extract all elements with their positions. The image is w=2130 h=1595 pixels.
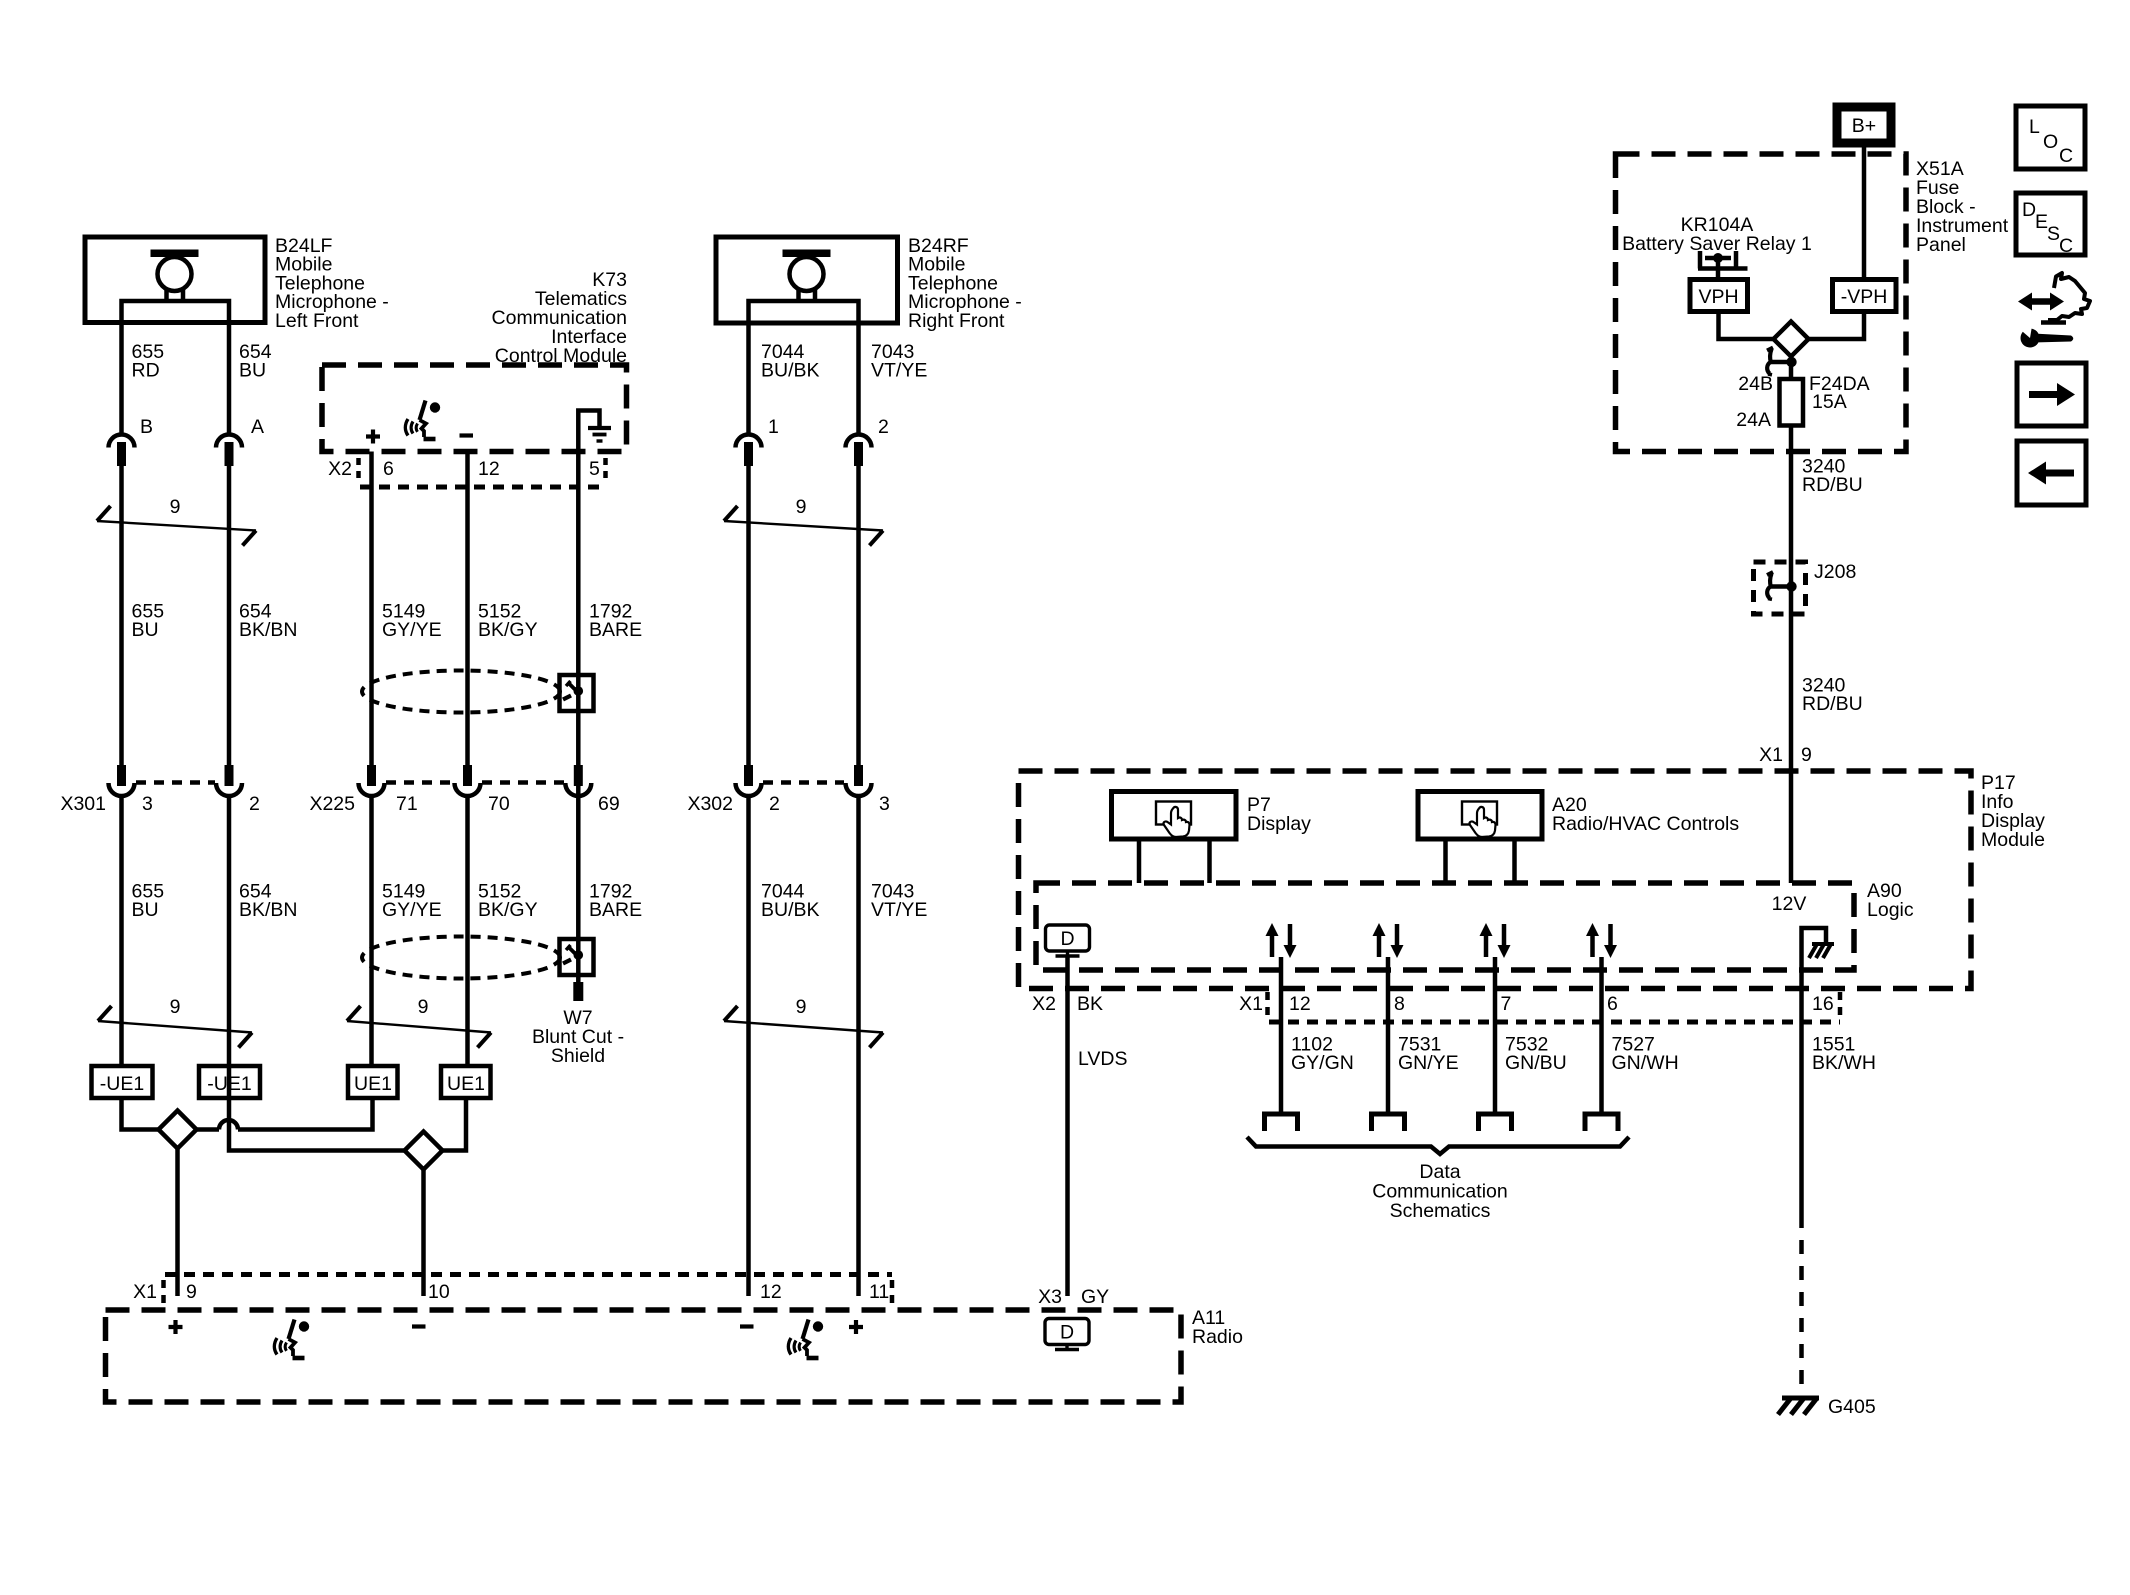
fuse block X51A dashed box xyxy=(1616,154,1907,452)
logic A90 dashed box xyxy=(1036,883,1854,970)
goto terminal (7532) xyxy=(1479,1114,1512,1131)
svg-text:Shield: Shield xyxy=(551,1045,605,1067)
svg-text:10: 10 xyxy=(428,1281,450,1303)
speaker icon radio left xyxy=(274,1320,309,1359)
microphone B24RF xyxy=(716,237,898,323)
terminal -VPH xyxy=(1833,280,1897,312)
brace Data Communication Schematics xyxy=(1247,1137,1629,1154)
updown arrows pin 7 xyxy=(1480,923,1511,958)
dashed ground wire to G405 xyxy=(1799,1214,1804,1394)
svg-text:9: 9 xyxy=(796,996,807,1018)
svg-text:Schematics: Schematics xyxy=(1390,1200,1491,1222)
wire 1551 BK/WH xyxy=(1799,954,1804,1214)
wire 1102 GY/GN xyxy=(1279,957,1284,1114)
wire 655 RD xyxy=(119,323,124,435)
updown arrows pin 12 xyxy=(1266,923,1297,958)
wire 7044 lower xyxy=(746,796,751,1296)
goto terminal (1102) xyxy=(1265,1114,1298,1131)
svg-text:X301: X301 xyxy=(60,793,106,815)
wire 7044 middle xyxy=(746,466,751,783)
svg-text:15A: 15A xyxy=(1812,391,1847,413)
svg-text:9: 9 xyxy=(170,996,181,1018)
minus mark (pin 12) xyxy=(740,1324,754,1328)
svg-text:5: 5 xyxy=(589,458,600,480)
takeout arrow at fuse feed xyxy=(1767,348,1797,375)
svg-text:UE1: UE1 xyxy=(447,1073,485,1095)
takeout -UE1 (655) xyxy=(92,1066,153,1098)
goto terminal (7531) xyxy=(1372,1114,1405,1131)
wire LVDS xyxy=(1065,956,1070,1296)
wire 7044 BU/BK xyxy=(746,323,751,435)
minus terminal mark xyxy=(460,433,474,437)
blunt cut W7 xyxy=(573,982,583,1001)
goto terminal (7527) xyxy=(1585,1114,1618,1131)
nav icon LOC xyxy=(2016,106,2085,169)
twist mark 9 (7044/7043 upper) xyxy=(724,496,883,546)
wire 654 BK/BN lower xyxy=(227,796,232,1098)
splice diamond 1 xyxy=(159,1111,197,1149)
wire 5152 BK/GY lower xyxy=(465,796,470,1066)
svg-text:X2: X2 xyxy=(328,458,352,480)
display P7 xyxy=(1112,792,1237,840)
connector strip X1 (A90) xyxy=(1239,992,1840,1022)
inline connector X301 xyxy=(60,765,259,815)
minus mark (pin 10) xyxy=(412,1324,426,1328)
svg-text:70: 70 xyxy=(488,793,510,815)
module K73 dashed box xyxy=(322,365,627,452)
wire 7531 GN/YE xyxy=(1386,957,1391,1114)
wire B+ to -VPH xyxy=(1862,148,1867,280)
svg-text:2: 2 xyxy=(249,793,260,815)
svg-text:12: 12 xyxy=(478,458,500,480)
wire -VPH to splice diamond xyxy=(1809,312,1864,340)
svg-text:1: 1 xyxy=(768,416,779,438)
svg-text:9: 9 xyxy=(418,996,429,1018)
splice diamond fuse feed xyxy=(1774,322,1809,357)
wire 654 BK/BN segment xyxy=(227,466,232,783)
splice diamond 2 xyxy=(405,1132,443,1170)
svg-text:8: 8 xyxy=(1394,993,1405,1015)
microphone B24LF xyxy=(85,237,265,323)
wire 5152 BK/GY xyxy=(465,452,470,784)
plus terminal mark xyxy=(366,430,380,444)
wire 5149 GY/YE xyxy=(369,452,374,784)
svg-text:X1: X1 xyxy=(1239,993,1263,1015)
nav icon back arrow xyxy=(2017,441,2086,505)
battery feed B+ xyxy=(1837,107,1891,143)
updown arrows pin 8 xyxy=(1373,923,1404,958)
plus mark (pin 9) xyxy=(169,1320,183,1334)
wire VPH to splice diamond xyxy=(1719,312,1774,340)
svg-text:J208: J208 xyxy=(1814,561,1856,583)
svg-text:O: O xyxy=(2043,131,2058,153)
twist mark 9 (655/654 lower) xyxy=(98,996,252,1048)
speaker icon K73 xyxy=(405,401,440,440)
monitor icon D (A90) xyxy=(1046,925,1090,956)
connector strip X2 xyxy=(328,458,605,487)
svg-text:655RD: 655RD xyxy=(132,341,165,382)
wire 655 BU lower xyxy=(119,796,124,1066)
inline connector X302 xyxy=(687,765,889,815)
svg-text:-VPH: -VPH xyxy=(1841,286,1888,308)
wire 7527 GN/WH xyxy=(1599,957,1604,1114)
svg-text:3: 3 xyxy=(879,793,890,815)
wire splice 1 to radio pin 9 xyxy=(175,1149,180,1297)
ground G405 xyxy=(1778,1396,1876,1418)
svg-text:LVDS: LVDS xyxy=(1078,1048,1128,1070)
svg-text:6: 6 xyxy=(383,458,394,480)
svg-text:9: 9 xyxy=(186,1281,197,1303)
wire 654 to splice diamond 2 xyxy=(229,1098,405,1151)
takeout UE1 (5149) xyxy=(348,1066,398,1098)
svg-text:X225: X225 xyxy=(309,793,355,815)
internal ground wire K73 xyxy=(578,411,599,983)
svg-text:B+: B+ xyxy=(1852,115,1876,137)
terminal VPH xyxy=(1690,280,1748,312)
wire X1 9 to A90 12V xyxy=(1789,771,1794,884)
svg-text:7: 7 xyxy=(1501,993,1512,1015)
svg-text:12: 12 xyxy=(760,1281,782,1303)
svg-text:A: A xyxy=(251,416,264,438)
connector strip X1 (radio) xyxy=(133,1275,892,1307)
svg-text:6: 6 xyxy=(1607,993,1618,1015)
wire 7043 lower xyxy=(856,796,861,1296)
svg-text:11: 11 xyxy=(869,1281,889,1303)
wire to splice diamond 1 xyxy=(122,1098,159,1130)
svg-text:-UE1: -UE1 xyxy=(207,1073,251,1095)
updown arrows pin 6 xyxy=(1586,923,1617,958)
wire 655 BU segment xyxy=(119,466,124,783)
takeout UE1 (5152) xyxy=(441,1066,491,1098)
svg-text:C: C xyxy=(2059,145,2073,167)
shield twist ellipse lower xyxy=(362,937,560,979)
speaker icon radio right xyxy=(788,1320,823,1359)
wire 5149 GY/YE lower xyxy=(369,796,374,1066)
svg-text:D: D xyxy=(2022,199,2036,221)
nav icon diagnostic (arrow car wrench) xyxy=(2018,273,2090,348)
svg-text:71: 71 xyxy=(396,793,418,815)
svg-text:16: 16 xyxy=(1812,993,1834,1015)
svg-text:9: 9 xyxy=(170,496,181,518)
wire 654 BU xyxy=(227,323,232,435)
wire 7043 middle xyxy=(856,466,861,783)
shield takeout lower xyxy=(560,939,594,975)
inline joint J208 xyxy=(1754,561,1857,614)
fuse F24DA 15A xyxy=(1736,373,1869,431)
radio A11 dashed box xyxy=(106,1310,1182,1402)
svg-text:L: L xyxy=(2029,116,2040,138)
svg-text:69: 69 xyxy=(598,793,620,815)
controls A20 xyxy=(1418,792,1542,840)
svg-text:12: 12 xyxy=(1289,993,1311,1015)
svg-text:X2: X2 xyxy=(1032,993,1056,1015)
nav icon DESC xyxy=(2016,193,2085,257)
svg-text:12V: 12V xyxy=(1772,893,1807,915)
svg-text:X3: X3 xyxy=(1038,1286,1062,1308)
svg-text:X1: X1 xyxy=(133,1281,157,1303)
svg-text:9: 9 xyxy=(1801,744,1812,766)
svg-text:3: 3 xyxy=(142,793,153,815)
shield twist ellipse upper xyxy=(362,671,560,713)
wires A20 to A90 xyxy=(1446,840,1515,884)
earth ground symbol K73 xyxy=(588,426,611,430)
wire splice 2 to radio pin 10 xyxy=(421,1170,426,1297)
svg-text:Battery Saver Relay 1: Battery Saver Relay 1 xyxy=(1622,233,1812,255)
twist mark 9 (7044/7043 lower) xyxy=(724,996,883,1048)
svg-text:BK: BK xyxy=(1077,993,1103,1015)
wire 3240 RD/BU to J208 xyxy=(1789,426,1794,771)
relay contact KR104A xyxy=(1698,251,1748,280)
wire diamond to fuse xyxy=(1789,357,1794,380)
svg-text:2: 2 xyxy=(878,416,889,438)
shield takeout upper xyxy=(560,675,594,711)
svg-text:UE1: UE1 xyxy=(354,1073,392,1095)
wire 7532 GN/BU xyxy=(1493,957,1498,1114)
svg-text:VPH: VPH xyxy=(1698,286,1738,308)
takeout -UE1 (654) xyxy=(199,1066,260,1098)
inline connector X225 xyxy=(309,765,619,815)
jumper with hop to UE1 wire xyxy=(197,1127,220,1132)
wire 7043 VT/YE xyxy=(856,323,861,435)
internal ground A90 xyxy=(1802,928,1835,958)
twist mark 9 (655/654 upper) xyxy=(97,496,256,546)
svg-text:B: B xyxy=(140,416,153,438)
nav icon forward arrow xyxy=(2017,363,2086,426)
svg-text:C: C xyxy=(2059,235,2073,257)
svg-text:G405: G405 xyxy=(1828,1396,1876,1418)
svg-text:2: 2 xyxy=(769,793,780,815)
svg-text:X302: X302 xyxy=(687,793,733,815)
twist mark 9 (5149/5152) xyxy=(347,996,491,1048)
wire UE1 (5152) to diamond 2 xyxy=(443,1098,467,1151)
monitor icon D (radio) xyxy=(1045,1319,1089,1350)
wires P7 to A90 xyxy=(1139,840,1210,884)
svg-text:X1: X1 xyxy=(1759,744,1783,766)
module P17 dashed box xyxy=(1019,771,1972,989)
svg-text:9: 9 xyxy=(796,496,807,518)
svg-text:GY: GY xyxy=(1081,1286,1109,1308)
svg-text:24B: 24B xyxy=(1738,373,1773,395)
plus mark (pin 11) xyxy=(849,1320,863,1334)
svg-text:24A: 24A xyxy=(1736,409,1771,431)
svg-text:-UE1: -UE1 xyxy=(100,1073,144,1095)
